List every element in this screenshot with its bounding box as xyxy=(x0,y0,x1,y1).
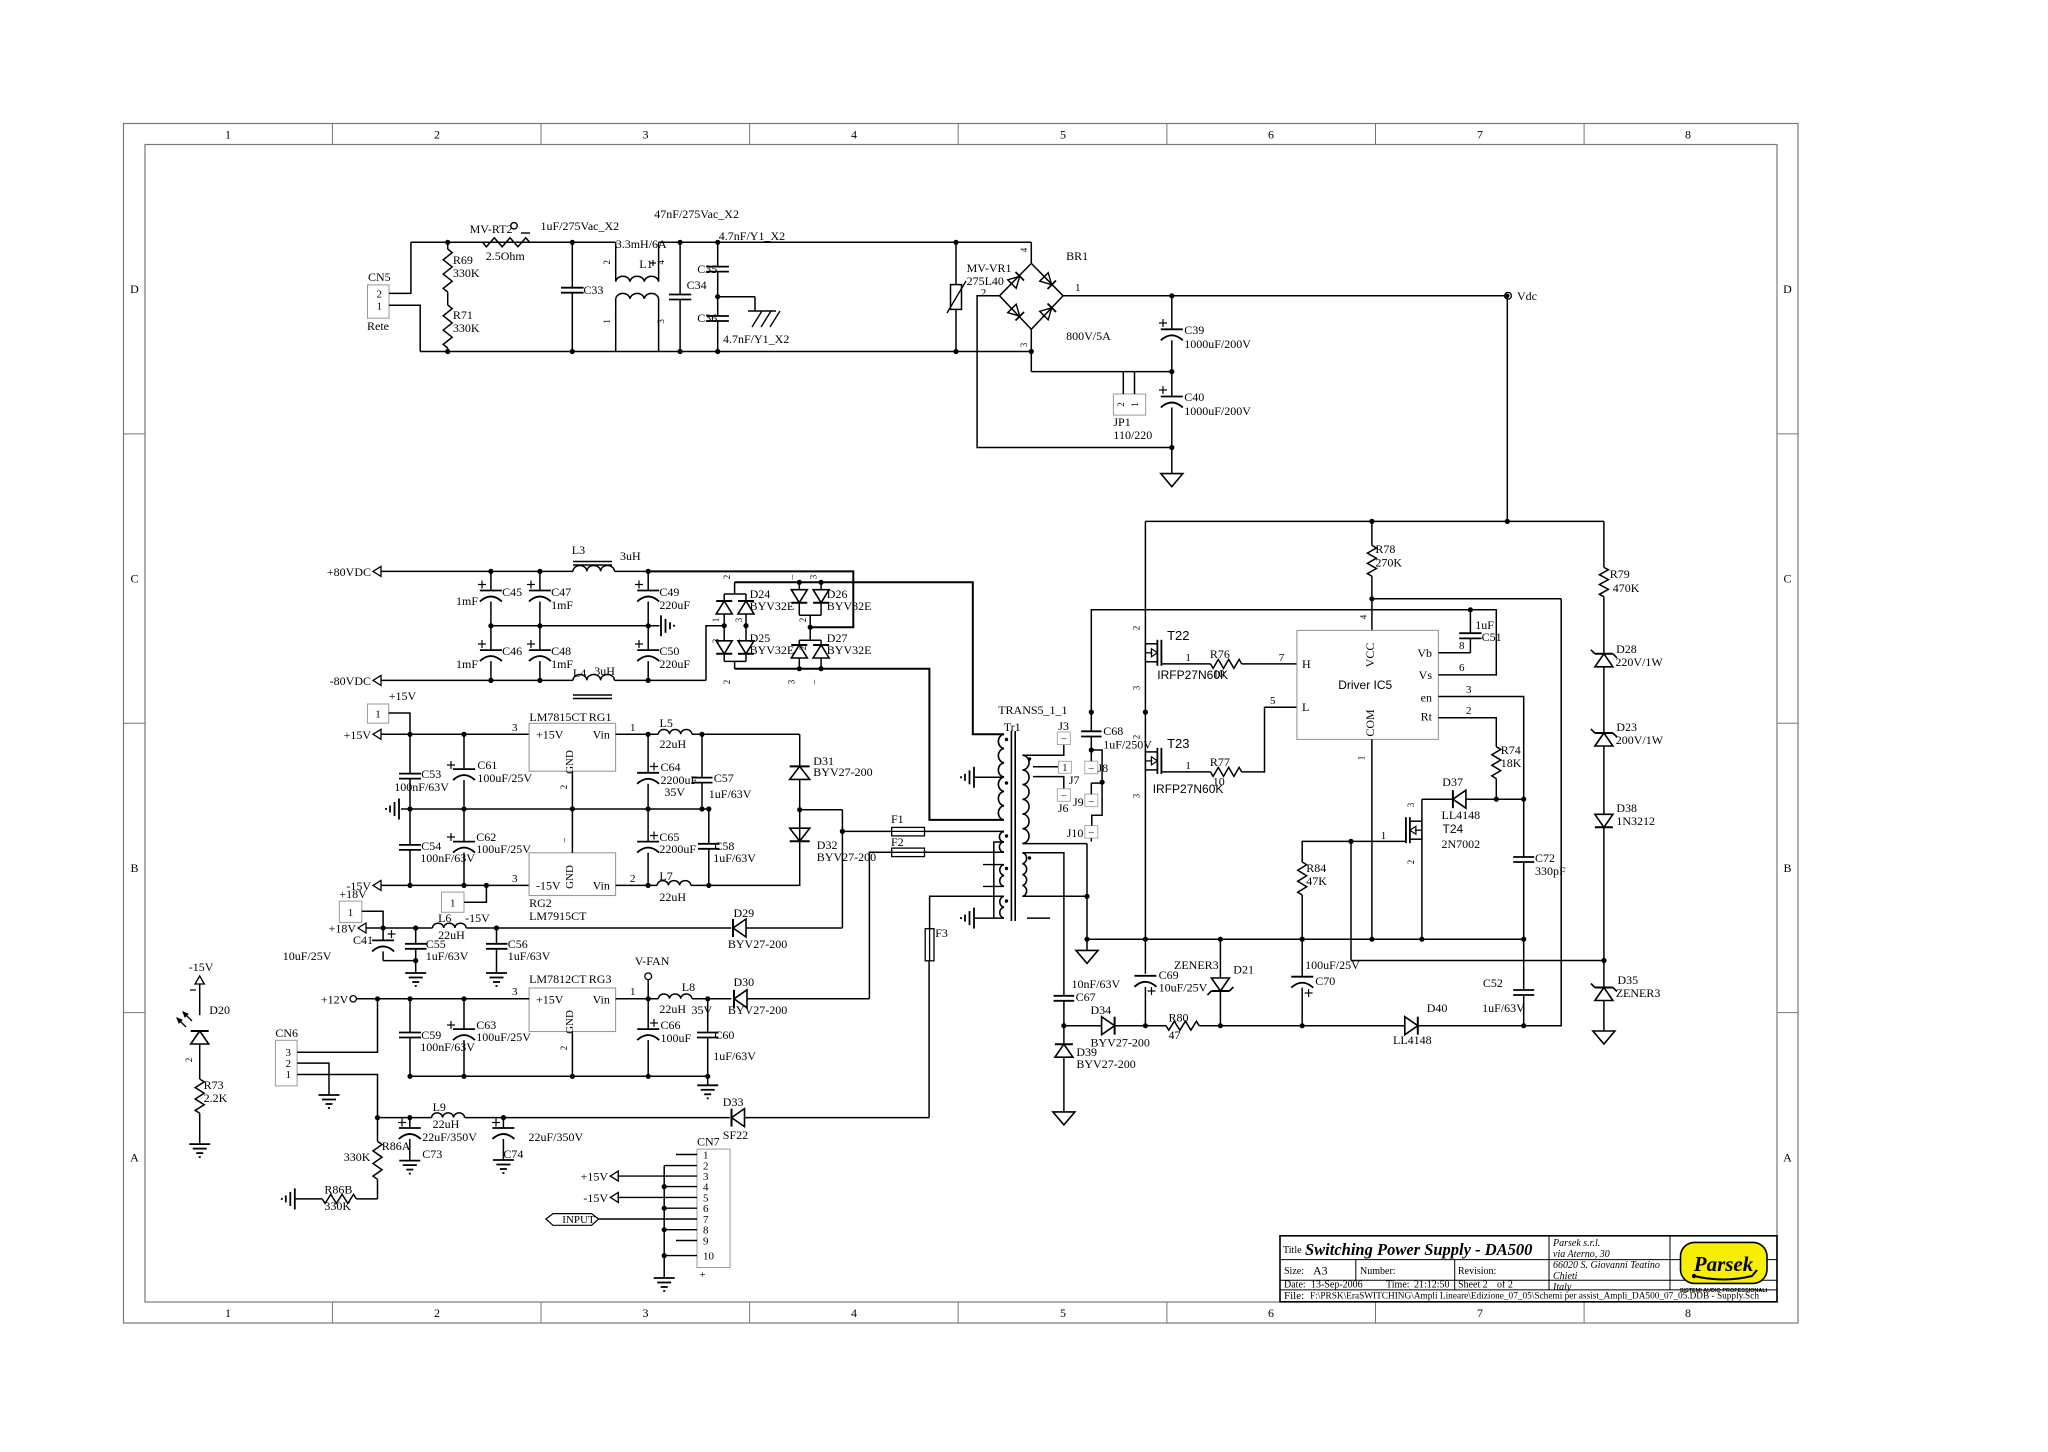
svg-text:BYV27-200: BYV27-200 xyxy=(813,765,872,779)
earth ground below RG3 rail xyxy=(697,1076,718,1098)
svg-text:1: 1 xyxy=(1185,760,1191,772)
svg-text:Vin: Vin xyxy=(593,992,610,1006)
capacitor C67 xyxy=(1054,977,1121,1028)
port -15V up arrow xyxy=(189,960,214,1015)
port +80VDC xyxy=(327,565,381,579)
svg-text:BYV32E: BYV32E xyxy=(827,599,872,613)
transformer aux winding W4 xyxy=(1000,896,1008,918)
svg-text:C64: C64 xyxy=(661,760,681,774)
transformer secondary winding S1 xyxy=(1022,755,1031,843)
connector CN5 xyxy=(367,270,391,333)
svg-text:6: 6 xyxy=(1268,1306,1274,1320)
wire CN6 pin2 to ground xyxy=(297,1063,329,1095)
svg-text:CN7: CN7 xyxy=(697,1135,720,1149)
driver IC5 xyxy=(1297,630,1439,739)
svg-text:7: 7 xyxy=(1279,652,1285,664)
wire +12V row xyxy=(356,996,529,1001)
capacitor C73 xyxy=(398,1118,477,1161)
transistor T22 xyxy=(1132,626,1229,691)
svg-text:L9: L9 xyxy=(433,1100,446,1114)
svg-text:1N3212: 1N3212 xyxy=(1616,814,1655,828)
svg-text:C49: C49 xyxy=(659,585,679,599)
svg-text:L8: L8 xyxy=(682,980,695,994)
wire T22 gate to R76 xyxy=(1161,652,1210,664)
wire Vb pin to C51 xyxy=(1438,640,1470,653)
capacitor C33 xyxy=(561,240,603,354)
svg-text:T24: T24 xyxy=(1443,822,1464,836)
svg-text:2: 2 xyxy=(722,575,732,580)
resistor R86A xyxy=(344,1118,411,1199)
svg-text:2: 2 xyxy=(798,618,808,623)
svg-text:3: 3 xyxy=(512,986,518,998)
svg-text:C66: C66 xyxy=(661,1018,681,1032)
svg-text:2200uF: 2200uF xyxy=(659,842,696,856)
wire regulator ground rail xyxy=(401,806,709,811)
wire Vs pin to C68 top node xyxy=(1091,610,1496,712)
svg-text:ZENER3: ZENER3 xyxy=(1616,986,1661,1000)
svg-text:D21: D21 xyxy=(1233,963,1254,977)
wire varistor pin2 return xyxy=(977,296,1172,448)
svg-text:B: B xyxy=(1783,861,1791,875)
inductor L6 xyxy=(433,911,467,942)
jumper J9 xyxy=(1073,794,1098,809)
svg-text:Sheet 2: Sheet 2 xyxy=(1458,1280,1488,1291)
size row text xyxy=(1284,1264,1496,1278)
svg-text:BYV32E: BYV32E xyxy=(750,599,795,613)
svg-text:–: – xyxy=(1088,796,1095,807)
svg-text:2: 2 xyxy=(1466,705,1472,717)
svg-text:1: 1 xyxy=(286,1069,292,1081)
svg-text:D34: D34 xyxy=(1091,1003,1112,1017)
svg-text:22uH: 22uH xyxy=(659,1002,686,1016)
svg-text:2: 2 xyxy=(602,260,612,265)
svg-text:2: 2 xyxy=(630,873,636,885)
svg-text:100uF/25V: 100uF/25V xyxy=(476,842,531,856)
svg-text:4: 4 xyxy=(1019,247,1029,252)
diode D34 xyxy=(1064,1003,1150,1050)
wire Vdc rail xyxy=(1169,293,1504,298)
chassis ground at primary center tap xyxy=(961,767,1004,788)
wire Rt pin to R74 xyxy=(1438,705,1496,747)
svg-text:2: 2 xyxy=(1132,735,1142,740)
fuse F3 xyxy=(925,926,948,961)
wire S2 bottom to common node xyxy=(1022,895,1087,897)
svg-text:2.2K: 2.2K xyxy=(204,1091,228,1105)
svg-text:3uH: 3uH xyxy=(620,549,641,563)
transistor T23 xyxy=(1132,735,1224,799)
svg-text:R71: R71 xyxy=(453,308,473,322)
svg-text:2: 2 xyxy=(559,1046,569,1051)
wire CN6 pin1 to L9 node xyxy=(297,1075,380,1121)
svg-text:–: – xyxy=(787,574,797,580)
port +18V arrow xyxy=(329,922,366,936)
capacitor C56 xyxy=(486,928,551,973)
svg-text:LM7915CT: LM7915CT xyxy=(529,909,587,923)
inductor L7 xyxy=(657,869,691,904)
resistor R73 xyxy=(195,1078,227,1144)
svg-text:C53: C53 xyxy=(421,767,441,781)
svg-text:2: 2 xyxy=(559,785,569,790)
inductor L1 common-mode choke xyxy=(616,237,667,352)
svg-text:7: 7 xyxy=(1477,1306,1483,1320)
svg-text:D: D xyxy=(1783,282,1792,296)
wire L9 row xyxy=(378,1115,730,1120)
svg-text:C36: C36 xyxy=(697,311,717,325)
svg-text:1: 1 xyxy=(1062,763,1067,774)
svg-text:5: 5 xyxy=(1060,1306,1066,1320)
column tick marks xyxy=(332,124,1584,1324)
svg-text:BYV27-200: BYV27-200 xyxy=(1091,1036,1150,1050)
svg-text:T23: T23 xyxy=(1167,736,1189,751)
diode D27 pair xyxy=(791,627,871,671)
CN7 pin stubs xyxy=(599,1155,697,1256)
svg-text:1: 1 xyxy=(225,128,231,142)
svg-text:330K: 330K xyxy=(344,1150,371,1164)
svg-text:C67: C67 xyxy=(1076,990,1096,1004)
svg-text:BYV27-200: BYV27-200 xyxy=(817,850,876,864)
diode D33 xyxy=(723,1095,929,1142)
regulator RG2 LM7915CT xyxy=(512,853,636,923)
bridge rectifier BR1 xyxy=(1000,242,1172,371)
svg-text:Parsek s.r.l.: Parsek s.r.l. xyxy=(1552,1238,1600,1249)
svg-text:2N7002: 2N7002 xyxy=(1442,837,1481,851)
svg-text:Chieti: Chieti xyxy=(1553,1271,1578,1282)
svg-text:R77: R77 xyxy=(1210,755,1230,769)
port +15V arrow xyxy=(344,728,381,742)
svg-text:3.3mH/6A: 3.3mH/6A xyxy=(616,237,667,251)
svg-text:A3: A3 xyxy=(1313,1264,1328,1278)
svg-text:2: 2 xyxy=(434,1306,440,1320)
stub at core bottom xyxy=(1027,917,1050,919)
svg-text:3: 3 xyxy=(1132,793,1142,798)
terminal V-FAN xyxy=(635,954,670,999)
wire CN5 pin1 to bottom rail xyxy=(389,305,420,351)
svg-text:–: – xyxy=(808,679,818,685)
svg-text:-15V: -15V xyxy=(189,960,214,974)
svg-text:8: 8 xyxy=(1459,640,1465,652)
diode D30 xyxy=(692,975,870,1017)
svg-text:D29: D29 xyxy=(734,906,755,920)
svg-text:SISTEMI AUDIO PROFESSIONALI: SISTEMI AUDIO PROFESSIONALI xyxy=(1680,1288,1768,1294)
svg-text:of 2: of 2 xyxy=(1497,1280,1513,1291)
svg-text:BR1: BR1 xyxy=(1066,249,1088,263)
label 4.7nF/Y1_X2 bottom xyxy=(723,332,789,346)
svg-text:10: 10 xyxy=(1213,667,1225,681)
svg-text:+15V: +15V xyxy=(344,728,372,742)
port -15V box xyxy=(442,885,491,925)
svg-text:JP1: JP1 xyxy=(1113,415,1130,429)
svg-text:6: 6 xyxy=(1268,128,1274,142)
svg-text:1uF/63V: 1uF/63V xyxy=(713,851,756,865)
svg-text:BYV27-200: BYV27-200 xyxy=(1076,1057,1135,1071)
svg-text:C46: C46 xyxy=(502,644,522,658)
svg-text:C51: C51 xyxy=(1482,630,1502,644)
wire F3 to transformer winding4 xyxy=(930,896,1004,928)
svg-text:MV-RT2: MV-RT2 xyxy=(470,222,513,236)
resistor R76 xyxy=(1210,647,1297,681)
svg-text:LL4148: LL4148 xyxy=(1442,808,1481,822)
earth ground below R73 xyxy=(189,1144,210,1157)
svg-text:Vin: Vin xyxy=(593,879,610,893)
earth ground below C55 xyxy=(405,973,426,986)
wire BR1 to C39/JP1 node xyxy=(1031,371,1172,373)
svg-text:47nF/275Vac_X2: 47nF/275Vac_X2 xyxy=(654,207,739,221)
resistor R84 xyxy=(1298,841,1328,941)
svg-text:5: 5 xyxy=(1060,128,1066,142)
svg-text:22uH: 22uH xyxy=(659,890,686,904)
svg-text:1: 1 xyxy=(1130,402,1140,407)
svg-text:D35: D35 xyxy=(1618,973,1639,987)
svg-text:1mF: 1mF xyxy=(551,657,573,671)
jumper J10 xyxy=(1067,826,1098,840)
file row text xyxy=(1284,1290,1759,1302)
svg-text:R78: R78 xyxy=(1375,542,1395,556)
regulator RG3 LM7812CT xyxy=(512,972,636,1034)
svg-text:SF22: SF22 xyxy=(723,1128,748,1142)
svg-text:D: D xyxy=(130,282,139,296)
svg-text:R69: R69 xyxy=(453,253,473,267)
capacitor C57 xyxy=(692,734,752,811)
svg-text:D20: D20 xyxy=(209,1003,230,1017)
svg-text:R73: R73 xyxy=(204,1078,224,1092)
svg-text:+15V: +15V xyxy=(536,992,564,1006)
wire +15V row xyxy=(381,732,529,737)
wire T24 gate to enable row xyxy=(1350,841,1352,960)
svg-text:+15V: +15V xyxy=(536,728,564,742)
wire COM pin to ground rail xyxy=(1357,739,1375,941)
earth ground below C73 xyxy=(399,1161,420,1174)
company address xyxy=(1552,1238,1660,1293)
svg-text:C47: C47 xyxy=(551,585,571,599)
svg-text:3: 3 xyxy=(1019,342,1029,347)
LED D20 xyxy=(177,1003,230,1079)
svg-text:L1: L1 xyxy=(639,257,652,271)
svg-text:T22: T22 xyxy=(1167,628,1189,643)
svg-text:330K: 330K xyxy=(453,321,480,335)
diode D26 pair xyxy=(791,580,871,630)
zener diode D28 xyxy=(1591,642,1664,733)
svg-text:6: 6 xyxy=(1459,662,1465,674)
svg-text:L5: L5 xyxy=(660,716,673,730)
power ground at secondary common xyxy=(1076,950,1098,963)
diode D39 xyxy=(1055,1026,1136,1112)
svg-text:1: 1 xyxy=(1381,830,1387,842)
svg-text:47: 47 xyxy=(1169,1028,1181,1042)
svg-text:R80: R80 xyxy=(1169,1011,1189,1025)
earth ground left of R86B xyxy=(282,1188,295,1209)
capacitor C52 xyxy=(1482,939,1534,1025)
capacitor C34 xyxy=(669,240,707,354)
regulator RG1 LM7815CT xyxy=(512,710,636,774)
diode D25 pair xyxy=(716,623,794,669)
inductor L4 xyxy=(573,664,615,699)
resistor R69 xyxy=(443,240,480,292)
svg-text:L3: L3 xyxy=(572,543,585,557)
svg-text:3: 3 xyxy=(734,617,744,622)
svg-text:via Aterno, 30: via Aterno, 30 xyxy=(1553,1249,1610,1260)
diode D37 xyxy=(1422,775,1524,822)
capacitor C63 xyxy=(447,999,531,1079)
svg-text:TRANS5_1_1: TRANS5_1_1 xyxy=(998,703,1067,717)
sheet outer border xyxy=(124,124,1799,1324)
wire rectifier bottom to transformer primary bottom xyxy=(735,669,1004,820)
svg-text:1: 1 xyxy=(348,907,354,919)
svg-text:V-FAN: V-FAN xyxy=(635,954,670,968)
svg-text:L7: L7 xyxy=(659,869,672,883)
inductor L8 xyxy=(658,980,695,1016)
terminal +12V xyxy=(321,992,357,1006)
wire R78 to en-column xyxy=(1369,596,1561,601)
svg-text:2: 2 xyxy=(184,1058,194,1063)
svg-text:22uH: 22uH xyxy=(660,737,687,751)
svg-text:J7: J7 xyxy=(1069,773,1080,787)
capacitor C62 xyxy=(447,809,531,888)
capacitor C50 xyxy=(635,626,690,683)
svg-text:VCC: VCC xyxy=(1363,643,1377,668)
svg-text:470K: 470K xyxy=(1613,581,1640,595)
svg-text:F3: F3 xyxy=(935,926,948,940)
svg-text:18K: 18K xyxy=(1501,756,1522,770)
svg-text:3: 3 xyxy=(711,638,721,643)
label 4.7nF/Y1_X2 top xyxy=(719,229,785,243)
svg-text:BYV27-200: BYV27-200 xyxy=(728,1003,787,1017)
svg-text:1: 1 xyxy=(450,898,456,910)
wire LV rectifier row xyxy=(1220,1025,1404,1027)
capacitor C41 xyxy=(283,928,416,963)
svg-text:Size:: Size: xyxy=(1284,1266,1304,1277)
svg-text:330K: 330K xyxy=(324,1199,351,1213)
svg-text:2: 2 xyxy=(722,680,732,685)
zener diode D35 xyxy=(1591,961,1660,1032)
wire S1 top to J3/J7 taps xyxy=(1022,744,1063,788)
wire +80VDC feed to D26/D27 node xyxy=(648,571,853,627)
svg-text:10: 10 xyxy=(703,1251,715,1263)
svg-text:L6: L6 xyxy=(438,911,451,925)
svg-text:110/220: 110/220 xyxy=(1113,428,1152,442)
svg-text:–: – xyxy=(1088,763,1095,774)
svg-text:D33: D33 xyxy=(723,1095,744,1109)
svg-text:22uF/350V: 22uF/350V xyxy=(422,1130,477,1144)
svg-text:10nF/63V: 10nF/63V xyxy=(1072,977,1121,991)
svg-text:Driver IC5: Driver IC5 xyxy=(1338,678,1392,692)
resistor R77 xyxy=(1210,695,1297,789)
wire RG3 GND pin xyxy=(559,1032,572,1077)
capacitor C45 xyxy=(456,569,522,629)
svg-text:3: 3 xyxy=(1132,685,1142,690)
svg-text:D28: D28 xyxy=(1616,642,1637,656)
svg-text:4: 4 xyxy=(1359,614,1369,619)
svg-text:800V/5A: 800V/5A xyxy=(1066,329,1111,343)
svg-text:D37: D37 xyxy=(1442,775,1463,789)
svg-text:C34: C34 xyxy=(687,278,707,292)
port -15V arrow at CN7 xyxy=(583,1191,618,1205)
svg-text:-15V: -15V xyxy=(583,1191,608,1205)
svg-text:100nF/63V: 100nF/63V xyxy=(420,851,475,865)
jumper JP1 xyxy=(1113,372,1152,442)
svg-text:21:12:50: 21:12:50 xyxy=(1414,1280,1450,1291)
wire driver top rail xyxy=(1145,519,1604,524)
svg-text:4: 4 xyxy=(656,260,666,265)
svg-text:275L40: 275L40 xyxy=(967,274,1004,288)
svg-text:2: 2 xyxy=(798,646,808,651)
title block frame xyxy=(1280,1236,1777,1302)
capacitor C51 xyxy=(1459,607,1501,653)
svg-text:Rt: Rt xyxy=(1421,710,1433,724)
svg-text:Switching Power Supply - DA500: Switching Power Supply - DA500 xyxy=(1305,1240,1532,1259)
svg-text:D40: D40 xyxy=(1427,1001,1448,1015)
svg-text:1mF: 1mF xyxy=(456,594,478,608)
svg-text:INPUT: INPUT xyxy=(562,1214,595,1226)
power ground below D39 xyxy=(1053,1112,1075,1125)
capacitor C36 xyxy=(697,294,729,354)
svg-text:J6: J6 xyxy=(1058,801,1069,815)
wire RG2 GND pin xyxy=(559,809,572,853)
sheet inner border xyxy=(145,145,1777,1303)
resistor R86B xyxy=(295,1183,378,1214)
svg-text:1: 1 xyxy=(377,301,383,313)
fuse F2 xyxy=(869,835,1004,999)
capacitor C68 xyxy=(1081,710,1152,753)
svg-text:–: – xyxy=(1088,827,1095,838)
wire CN5 pin2 to top rail xyxy=(389,242,411,293)
capacitor C53 xyxy=(394,734,449,811)
svg-text:100uF: 100uF xyxy=(661,1031,692,1045)
svg-text:C48: C48 xyxy=(551,644,571,658)
wire +12V to CN6 pin3 xyxy=(297,999,377,1052)
wire C68 node to J8/J9/J10 chain xyxy=(1091,750,1104,826)
wire S1 bottom to common node xyxy=(1022,838,1091,950)
capacitor C64 xyxy=(637,734,697,809)
svg-text:3: 3 xyxy=(787,679,797,684)
wire control ground rail xyxy=(1145,937,1523,942)
svg-text:1uF/63V: 1uF/63V xyxy=(426,949,469,963)
svg-text:Vdc: Vdc xyxy=(1517,289,1537,303)
transformer aux winding W2 xyxy=(999,832,1008,852)
capacitor C65 xyxy=(637,809,696,885)
wire +80VDC rail xyxy=(381,570,648,572)
svg-text:R86A: R86A xyxy=(382,1139,411,1153)
jumper J8 xyxy=(1085,761,1108,775)
svg-text:1: 1 xyxy=(630,722,636,734)
svg-text:–: – xyxy=(1060,791,1067,802)
capacitor C46 xyxy=(456,626,522,683)
connector CN7 xyxy=(697,1135,730,1268)
svg-text:100uF/25V: 100uF/25V xyxy=(476,1030,531,1044)
svg-text:47K: 47K xyxy=(1306,874,1327,888)
wire top mains rail xyxy=(411,241,1031,243)
svg-text:35V: 35V xyxy=(664,785,685,799)
svg-text:Parsek: Parsek xyxy=(1693,1252,1754,1276)
svg-text:BYV32E: BYV32E xyxy=(827,643,872,657)
svg-text:1: 1 xyxy=(1357,756,1367,761)
svg-text:10uF/25V: 10uF/25V xyxy=(283,949,332,963)
svg-text:A: A xyxy=(130,1150,139,1164)
svg-text:1uF/63V: 1uF/63V xyxy=(713,1049,756,1063)
capacitor C58 xyxy=(698,806,756,885)
svg-text:C50: C50 xyxy=(659,644,679,658)
svg-text:LL4148: LL4148 xyxy=(1393,1033,1432,1047)
wire T23 gate to R77 xyxy=(1161,760,1210,772)
wire bottom mains rail xyxy=(420,351,1031,353)
svg-text:1: 1 xyxy=(1185,652,1191,664)
svg-text:RG1: RG1 xyxy=(589,710,612,724)
svg-text:5: 5 xyxy=(1270,695,1276,707)
svg-text:Rete: Rete xyxy=(367,319,389,333)
svg-text:1: 1 xyxy=(375,709,381,721)
svg-text:2: 2 xyxy=(434,128,440,142)
transistor T24 xyxy=(1303,799,1480,942)
svg-text:1uF/63V: 1uF/63V xyxy=(709,787,752,801)
